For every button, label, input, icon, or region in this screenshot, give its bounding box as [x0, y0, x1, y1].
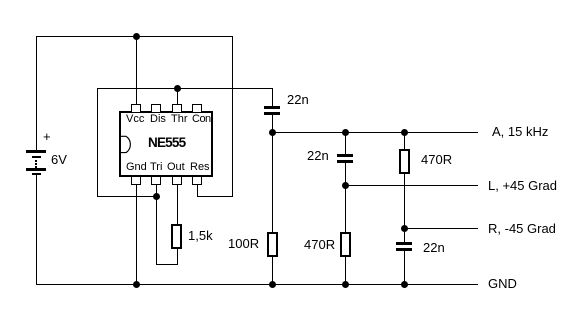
op-amp U1 NE555 body — [119, 111, 213, 177]
U1 pin label Con — [192, 114, 211, 125]
wire: ground rail — [36, 284, 478, 285]
node: Tri junction — [153, 193, 160, 200]
label: C3 value 22n — [423, 241, 445, 254]
U1 pin Vcc (top) — [131, 104, 141, 113]
wire: node A rail — [272, 132, 478, 133]
wire: C2 bottom lead — [345, 163, 346, 186]
label: R2 value 100R — [228, 237, 259, 250]
U1 pin label Gnd — [126, 162, 147, 173]
capacitor C1 22n plates — [264, 106, 280, 109]
battery B1 dotted middle — [35, 160, 37, 162]
wire: Thr pin stub — [177, 88, 178, 105]
wire: C1 top lead — [272, 88, 273, 106]
wire: 470R left top lead — [345, 185, 346, 233]
resistor R3 470R body — [340, 232, 351, 257]
label: R4 value 470R — [421, 153, 452, 166]
wire: 470R left bottom lead — [345, 256, 346, 285]
wire: 100R bottom lead — [272, 256, 273, 285]
resistor R2 100R body — [267, 232, 278, 257]
U1 pin Res (bottom) — [192, 176, 202, 185]
label: GND — [488, 277, 517, 290]
wire: Gnd pin drop to ground rail — [136, 184, 137, 285]
capacitor C3 22n plates — [396, 242, 412, 245]
wire: horizontal to Res pin — [197, 196, 233, 197]
U1 pin label Thr — [171, 114, 188, 125]
battery B1 plate short top — [32, 156, 41, 158]
wire: 470R right top lead — [404, 132, 405, 150]
wire: top supply rail — [36, 36, 233, 37]
U1 notch — [119, 134, 133, 156]
wire: node L rail — [345, 185, 478, 186]
node: A at R4 — [401, 129, 408, 136]
resistor R1 1,5k body — [171, 224, 182, 249]
label: battery 6V — [51, 153, 67, 166]
U1 pin Con (top) — [192, 104, 202, 113]
U1 pin label Tri — [150, 162, 162, 173]
wire: node R rail — [404, 228, 478, 229]
label: R3 value 470R — [304, 238, 335, 251]
wire: Vcc pin drop from supply rail — [136, 36, 137, 105]
wire: C1 bottom lead — [272, 115, 273, 133]
U1 pin label Vcc — [126, 114, 144, 125]
U1 pin label Dis — [150, 114, 166, 125]
wire: Tri pin drop — [156, 184, 157, 265]
label: output R, -45 Grad — [488, 222, 556, 235]
wire: C3 bottom lead — [404, 251, 405, 285]
resistor R4 470R body — [399, 149, 410, 174]
wire: C3 top lead — [404, 228, 405, 242]
U1 pin label Res — [190, 162, 210, 173]
wire: Thr-Tri loop bottom horizontal — [97, 196, 157, 197]
node: R at R4 — [401, 225, 408, 232]
battery B1 plate short bottom — [32, 173, 41, 175]
U1 pin Gnd (bottom) — [131, 176, 141, 185]
label: R1 value 1,5k — [188, 229, 213, 242]
U1 pin Tri (bottom) — [151, 176, 161, 185]
U1 label NE555 — [148, 136, 185, 149]
wire: 470R right bottom lead — [404, 173, 405, 229]
node: Thr junction — [174, 85, 181, 92]
wire: battery top lead — [36, 36, 37, 151]
wire: right vertical from supply rail to Res — [232, 36, 233, 197]
wire: Tri to 1.5k bottom horizontal — [156, 264, 178, 265]
label: battery plus — [43, 130, 51, 143]
battery B1 plate long bottom — [26, 168, 46, 171]
wire: Res pin stub — [197, 184, 198, 197]
label: C2 value 22n — [307, 149, 329, 162]
wire: 1.5k bottom lead — [177, 248, 178, 265]
node: ground at Gnd pin — [133, 281, 140, 288]
wire: 100R top lead — [272, 132, 273, 233]
U1 pin label Out — [167, 162, 185, 173]
node: ground at C3 — [401, 281, 408, 288]
wire: C2 top lead — [345, 132, 346, 154]
node: A at C1 — [269, 129, 276, 136]
U1 pin Dis (top) — [151, 104, 161, 113]
U1 pin Thr (top) — [172, 104, 182, 113]
node: L at C2 — [342, 182, 349, 189]
node: Vcc tap on supply rail — [133, 33, 140, 40]
label: output A, 15 kHz — [492, 125, 548, 138]
wire: battery bottom lead — [36, 175, 37, 285]
wire: Out pin to 1.5k top — [177, 184, 178, 225]
capacitor C2 22n plates — [337, 154, 353, 157]
wire: Thr node top horizontal — [97, 88, 273, 89]
label: C1 value 22n — [287, 93, 309, 106]
U1 pin Out (bottom) — [172, 176, 182, 185]
battery B1 plate long top — [26, 150, 46, 153]
wire: Thr-Tri loop left vertical — [97, 88, 98, 197]
label: output L, +45 Grad — [488, 179, 557, 192]
node: ground at 100R — [269, 281, 276, 288]
node: A at C2 — [342, 129, 349, 136]
node: ground at 470R — [342, 281, 349, 288]
